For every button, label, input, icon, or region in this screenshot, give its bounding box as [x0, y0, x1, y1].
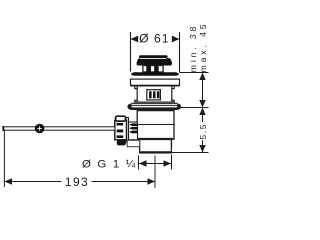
tooth 1	[129, 123, 137, 126]
bottom rim thick edge	[140, 151, 172, 153]
svg-text:5.5: 5.5	[198, 123, 208, 140]
vent window	[147, 90, 161, 100]
lower flange bottom bar	[127, 103, 181, 110]
G thread ext line left	[138, 156, 140, 170]
nut top cap	[116, 116, 126, 121]
lower body (thread)	[140, 140, 172, 153]
arrow up (min/max)	[199, 73, 205, 81]
nut slot 3	[117, 135, 124, 138]
plug lip	[131, 72, 180, 76]
extension line to right dim (bottom, y152)	[172, 152, 209, 154]
G dim line	[139, 163, 171, 165]
ball cross	[37, 128, 41, 130]
right dimension line min38/max45	[202, 73, 204, 108]
nut slot 1	[117, 123, 124, 126]
washer	[126, 118, 129, 142]
upper body joint line	[137, 124, 174, 126]
lower flange	[132, 102, 178, 104]
vent bars	[149, 91, 152, 98]
extension line to right dim (middle, y107)	[181, 107, 209, 109]
centerline	[154, 156, 156, 189]
upper flange bottom edge	[131, 85, 179, 87]
rod ball	[35, 124, 45, 134]
neck top flare	[135, 86, 174, 89]
side inlet tube	[129, 122, 138, 140]
upper body	[137, 111, 174, 140]
neck sides	[136, 87, 138, 103]
extension line right (Ø61)	[179, 32, 181, 73]
arrow down (5.5)	[199, 145, 205, 153]
nut bottom cap	[117, 140, 126, 145]
svg-text:Ø 61: Ø 61	[139, 32, 169, 46]
right dimension line 5.5	[202, 108, 204, 123]
G arrow right	[164, 160, 172, 166]
plug cap plateau	[139, 55, 168, 58]
neck bottom seat line	[134, 101, 175, 103]
G arrow left	[139, 160, 147, 166]
tooth 2	[129, 127, 137, 130]
pull rod	[4, 127, 115, 130]
arrow left (Ø61)	[131, 36, 139, 43]
tooth 3	[129, 131, 137, 134]
G thread ext line right	[171, 155, 173, 170]
svg-text:min. 38: min. 38	[188, 24, 198, 72]
193 dim line	[5, 181, 62, 183]
neck bottom flare	[135, 100, 174, 102]
193 arrow right	[148, 178, 156, 184]
193 arrow left	[5, 178, 13, 184]
upper flange	[131, 79, 180, 85]
nut slot 2	[117, 130, 124, 133]
arrow up (5.5)	[199, 108, 205, 116]
plug stem bars	[146, 66, 151, 73]
arrow down (min/max)	[199, 100, 205, 108]
svg-text:193: 193	[65, 175, 89, 189]
193 ext line left	[3, 131, 5, 188]
plug stem	[143, 66, 163, 73]
extension line to right dim (top, y72)	[180, 72, 209, 74]
inlet base tab	[127, 140, 140, 146]
arrow right (Ø61)	[172, 36, 180, 43]
plug cap dome	[137, 58, 173, 66]
svg-text:max. 45: max. 45	[198, 22, 208, 73]
rod end cap	[2, 126, 4, 131]
svg-text:Ø G 1 ¼: Ø G 1 ¼	[82, 159, 137, 171]
nut body	[115, 120, 127, 139]
upper body thick joint	[137, 138, 173, 140]
plug cap seam	[140, 57, 167, 59]
extension line left (Ø61)	[130, 32, 132, 72]
